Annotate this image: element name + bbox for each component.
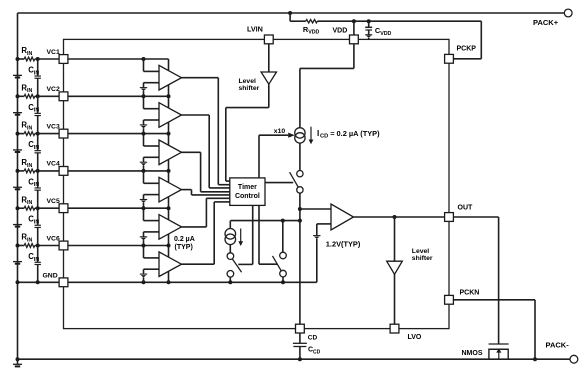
current source x10 (ICD) bbox=[295, 128, 305, 143]
wire cell tap row VC1 bbox=[18, 58, 60, 60]
battery cell 2 bbox=[13, 113, 22, 116]
svg-text:Control: Control bbox=[235, 193, 260, 200]
wire level shifter to timer control bbox=[226, 84, 269, 181]
wire comparator U6 + input bbox=[144, 246, 160, 258]
pin VC4 bbox=[59, 167, 68, 176]
wire cell tap row VC6 bbox=[18, 245, 60, 247]
wire timer to CD switch control bbox=[265, 182, 293, 184]
pin VC3 bbox=[59, 129, 68, 138]
zener reference 1.2V(TYP) bbox=[313, 236, 361, 283]
svg-text:CD: CD bbox=[313, 349, 321, 355]
capacitor CIN 4 bbox=[28, 171, 41, 208]
svg-text:IN: IN bbox=[27, 163, 32, 169]
pin VC2 bbox=[59, 92, 68, 101]
svg-text:I: I bbox=[317, 129, 319, 138]
capacitor CCD bbox=[293, 333, 321, 361]
battery cell 3 bbox=[13, 150, 22, 153]
op-amp U6 (cell 6 comparator) bbox=[159, 252, 182, 277]
pin LVIN bbox=[264, 35, 273, 44]
junction dots row VC2 bbox=[16, 94, 40, 98]
wire rail to PACK- junction bbox=[16, 357, 20, 361]
wire battery rail (PACK+ stack) bbox=[17, 13, 19, 364]
svg-text:IN: IN bbox=[34, 145, 39, 151]
switch S3 (right balance) bbox=[273, 221, 287, 285]
level shifter U9 bbox=[387, 248, 433, 274]
capacitor CVDD bbox=[365, 19, 391, 39]
svg-text:(TYP): (TYP) bbox=[175, 244, 193, 251]
wire PCKN to PACK- bbox=[453, 300, 537, 361]
pin OUT bbox=[445, 213, 454, 222]
terminal PACK- bbox=[546, 341, 578, 364]
svg-text:IN: IN bbox=[34, 70, 39, 76]
svg-text:CD: CD bbox=[320, 134, 328, 140]
wire comparator U2 - input bbox=[144, 120, 160, 125]
svg-text:IN: IN bbox=[27, 88, 32, 94]
svg-text:CD: CD bbox=[308, 334, 318, 341]
pin GND bbox=[59, 278, 68, 287]
svg-text:VC1: VC1 bbox=[47, 49, 60, 56]
op-amp U1 (cell 1 comparator) bbox=[159, 65, 182, 90]
svg-text:VC5: VC5 bbox=[47, 198, 60, 205]
resistor RIN row 6 bbox=[21, 233, 34, 248]
svg-text:Level: Level bbox=[239, 78, 256, 85]
terminal PACK+ bbox=[533, 9, 572, 27]
resistor RIN row 2 bbox=[21, 83, 34, 98]
wire CD timing node horizontal bbox=[230, 219, 300, 223]
svg-text:shifter: shifter bbox=[412, 255, 433, 262]
wire timer to balance switch 1 control bbox=[238, 205, 253, 264]
wire CD column bbox=[298, 193, 302, 324]
svg-text:Timer: Timer bbox=[238, 184, 257, 191]
capacitor CIN 5 bbox=[28, 208, 41, 245]
svg-text:IN: IN bbox=[34, 182, 39, 188]
pin CD bbox=[296, 324, 305, 333]
node VDD bbox=[333, 19, 356, 35]
wire comparator U5 + input bbox=[144, 208, 160, 220]
battery cell 1 bbox=[13, 75, 22, 78]
svg-text:VDD: VDD bbox=[333, 28, 348, 35]
label ICD = 0.2 uA (TYP) with down arrow bbox=[309, 127, 381, 145]
switch S2 (left balance) bbox=[227, 245, 242, 285]
pin LVIN bbox=[247, 24, 263, 33]
wire comparator U1 output bbox=[182, 78, 230, 185]
wire cell tap row VC2 bbox=[18, 95, 60, 97]
wire comparator U3 output bbox=[182, 152, 230, 192]
resistor RIN row 3 bbox=[21, 121, 34, 136]
svg-text:LVIN: LVIN bbox=[247, 24, 263, 33]
wire comparator U4 - input bbox=[144, 195, 160, 200]
op-amp U8 (CD comparator) bbox=[331, 204, 354, 230]
junction dots row VC1 bbox=[16, 57, 40, 61]
wire OUT to level shifter 2 bbox=[394, 217, 396, 261]
wire timer to balance switch 2 control bbox=[259, 205, 277, 264]
battery cell 5 bbox=[13, 225, 22, 228]
transistor NMOS Q1 bbox=[462, 344, 509, 359]
battery cell bottom terminal bbox=[13, 364, 22, 367]
svg-text:= 0.2 µA (TYP): = 0.2 µA (TYP) bbox=[330, 129, 380, 138]
capacitor CIN 1 bbox=[28, 59, 41, 96]
wire comparator U8 - input bbox=[317, 224, 331, 236]
svg-text:Level: Level bbox=[412, 248, 429, 255]
wire comparator U6 - input bbox=[144, 269, 160, 274]
svg-text:IN: IN bbox=[34, 108, 39, 114]
svg-text:VC4: VC4 bbox=[47, 161, 60, 168]
wire cell tap row VC5 bbox=[18, 207, 60, 209]
svg-text:IN: IN bbox=[34, 257, 39, 263]
capacitor CIN 3 bbox=[28, 134, 41, 171]
wire VC4 internal line bbox=[68, 169, 171, 173]
svg-text:VDD: VDD bbox=[380, 31, 391, 37]
wire VC5 internal line bbox=[68, 206, 171, 210]
node stub-GND junction bbox=[167, 280, 171, 284]
wire comparator U3 + input bbox=[144, 134, 160, 146]
pin PCKN bbox=[445, 295, 454, 304]
wire comparator U6 output bbox=[182, 202, 230, 264]
svg-text:GND: GND bbox=[43, 273, 58, 280]
zener reference D1 bbox=[140, 88, 147, 97]
op-amp U5 (cell 5 comparator) bbox=[159, 215, 182, 240]
wire comparator U2 output bbox=[182, 115, 230, 188]
block Timer Control bbox=[230, 178, 265, 206]
wire VC3 internal line bbox=[68, 132, 171, 136]
svg-text:PCKP: PCKP bbox=[457, 45, 477, 52]
IC boundary box bbox=[64, 39, 450, 328]
pin PCKP bbox=[445, 54, 454, 63]
wire comparator U4 + input bbox=[144, 171, 160, 183]
wire PACK+ top wire bbox=[18, 12, 565, 14]
svg-text:PACK+: PACK+ bbox=[533, 18, 559, 27]
wire timer to x10 mirror bbox=[259, 133, 295, 178]
junction dots row VC4 bbox=[16, 169, 40, 173]
wire comparator U5 output bbox=[182, 198, 230, 227]
pin VC6 bbox=[59, 241, 68, 250]
svg-text:OUT: OUT bbox=[458, 205, 474, 212]
zener reference D4 bbox=[140, 200, 147, 209]
svg-text:1.2V(TYP): 1.2V(TYP) bbox=[326, 239, 361, 248]
svg-text:x10: x10 bbox=[274, 128, 286, 135]
capacitor CIN 2 bbox=[28, 96, 41, 133]
pin VC5 bbox=[59, 204, 68, 213]
wire comparator U8 + input bbox=[300, 208, 331, 210]
zener reference D3 bbox=[140, 162, 147, 171]
resistor RIN row 1 bbox=[21, 46, 34, 61]
wire comparator U4 output bbox=[182, 190, 230, 195]
pin VC1 bbox=[59, 55, 68, 64]
svg-text:IN: IN bbox=[27, 200, 32, 206]
wire PCKP to supply bbox=[453, 21, 481, 59]
zener reference D2 bbox=[140, 125, 147, 134]
op-amp U2 (cell 2 comparator) bbox=[159, 103, 182, 128]
junction dots row VC5 bbox=[16, 206, 40, 210]
zener reference D6 bbox=[140, 274, 147, 282]
svg-text:shifter: shifter bbox=[239, 85, 260, 92]
svg-text:IN: IN bbox=[27, 51, 32, 57]
wire cell tap row VC3 bbox=[18, 133, 60, 135]
op-amp U4 (cell 4 comparator) bbox=[159, 177, 182, 202]
wire LVIN to level shifter bbox=[268, 44, 270, 72]
switch S1 (CD path) bbox=[290, 171, 303, 194]
pin VDD bbox=[350, 35, 359, 44]
svg-text:0.2 µA: 0.2 µA bbox=[174, 236, 195, 243]
svg-text:NMOS: NMOS bbox=[462, 350, 483, 357]
wire VDD supply branch from PACK+ bbox=[288, 11, 481, 21]
svg-text:PACK-: PACK- bbox=[546, 341, 570, 350]
wire GND row bbox=[16, 280, 60, 284]
current source 0.2uA (TYP) bbox=[174, 221, 243, 252]
resistor RIN row 5 bbox=[21, 195, 34, 210]
wire VC1 internal line bbox=[68, 57, 169, 61]
svg-text:IN: IN bbox=[27, 237, 32, 243]
svg-text:VDD: VDD bbox=[308, 30, 319, 36]
wire OUT net bbox=[354, 215, 445, 219]
wire comparator supply stub column bbox=[168, 59, 170, 282]
wire OUT to NMOS gate bbox=[453, 217, 498, 344]
svg-text:IN: IN bbox=[27, 126, 32, 132]
svg-text:IN: IN bbox=[34, 220, 39, 226]
wire comparator U3 - input bbox=[144, 157, 160, 162]
zener reference D5 bbox=[140, 237, 147, 246]
svg-text:LVO: LVO bbox=[408, 334, 422, 341]
svg-text:VC2: VC2 bbox=[47, 86, 60, 93]
wire VDD to x10 current source bbox=[300, 44, 354, 128]
resistor RVDD bbox=[303, 20, 320, 36]
junction dots row VC6 bbox=[16, 244, 40, 248]
pin LVO bbox=[390, 324, 399, 333]
op-amp U3 (cell 3 comparator) bbox=[159, 140, 182, 165]
wire PACK- rail bbox=[18, 358, 571, 360]
wire level shifter 2 to LVO bbox=[394, 274, 396, 324]
wire x10 source to switch bbox=[299, 143, 301, 170]
battery cell 6 bbox=[13, 262, 22, 265]
wire cell tap row VC4 bbox=[18, 170, 60, 172]
wire comparator U5 - input bbox=[144, 232, 160, 237]
battery cell 4 bbox=[13, 187, 22, 190]
wire comparator U2 + input bbox=[144, 96, 160, 108]
wire comparator U1 + input bbox=[144, 59, 160, 71]
svg-text:VC6: VC6 bbox=[47, 235, 60, 242]
capacitor CIN 6 bbox=[28, 246, 41, 283]
svg-text:PCKN: PCKN bbox=[460, 289, 480, 296]
svg-text:VC3: VC3 bbox=[47, 123, 60, 130]
wire VC6 internal line bbox=[68, 244, 171, 248]
wire GND internal line bbox=[68, 280, 317, 284]
junction dots row VC3 bbox=[16, 132, 40, 136]
level shifter U7 bbox=[239, 72, 277, 92]
resistor RIN row 4 bbox=[21, 158, 34, 173]
wire VC2 internal line bbox=[68, 94, 171, 98]
wire comparator U1 - input bbox=[144, 83, 160, 88]
